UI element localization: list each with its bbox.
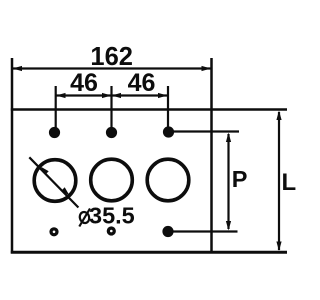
svg-text:46: 46 [70,69,98,97]
svg-text:P: P [232,166,248,192]
svg-text:46: 46 [128,69,156,97]
svg-text:L: L [282,169,297,196]
svg-text:162: 162 [90,43,133,71]
svg-text:35.5: 35.5 [89,203,135,229]
